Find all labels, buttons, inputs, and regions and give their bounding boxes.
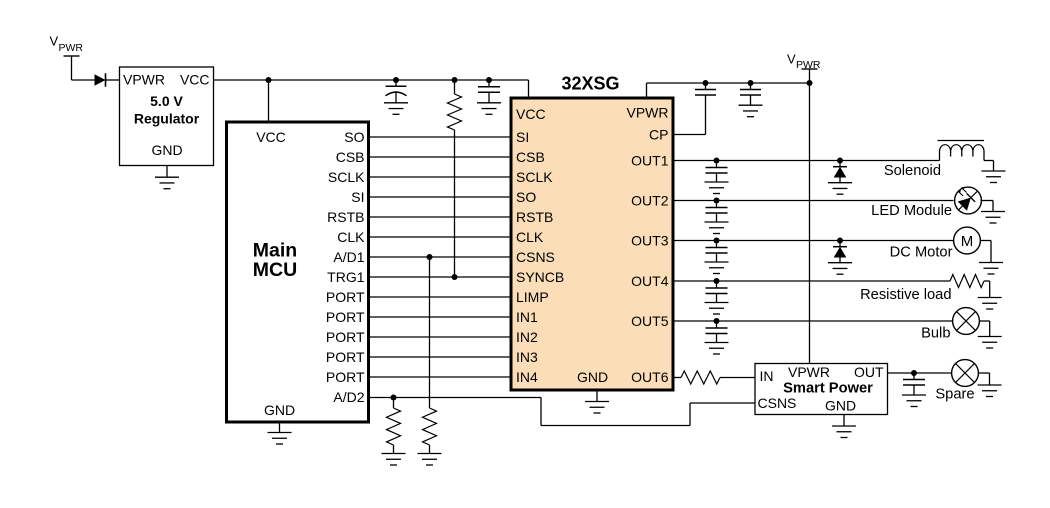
svg-text:VCC: VCC: [180, 72, 210, 88]
svg-text:SO: SO: [516, 189, 536, 205]
svg-text:M: M: [961, 233, 974, 250]
svg-text:Solenoid: Solenoid: [884, 163, 941, 179]
svg-text:CSNS: CSNS: [758, 395, 797, 411]
svg-text:DC Motor: DC Motor: [890, 245, 953, 261]
svg-text:SCLK: SCLK: [328, 169, 365, 185]
svg-text:Spare: Spare: [935, 387, 974, 403]
svg-text:OUT: OUT: [854, 364, 884, 380]
svg-text:A/D1: A/D1: [333, 249, 364, 265]
svg-text:GND: GND: [577, 369, 608, 385]
svg-text:CP: CP: [649, 127, 668, 143]
svg-text:PORT: PORT: [326, 309, 365, 325]
svg-text:PORT: PORT: [326, 369, 365, 385]
svg-text:IN1: IN1: [516, 309, 538, 325]
svg-text:IN: IN: [760, 368, 774, 384]
svg-text:IN3: IN3: [516, 349, 538, 365]
svg-text:SO: SO: [344, 129, 364, 145]
svg-text:Regulator: Regulator: [134, 111, 200, 127]
svg-text:PWR: PWR: [59, 42, 84, 54]
svg-text:RSTB: RSTB: [327, 209, 364, 225]
svg-text:V: V: [787, 52, 796, 67]
svg-text:A/D2: A/D2: [333, 389, 364, 405]
svg-text:PORT: PORT: [326, 289, 365, 305]
svg-text:GND: GND: [264, 402, 295, 418]
svg-text:LED Module: LED Module: [871, 203, 952, 219]
svg-text:OUT5: OUT5: [631, 313, 669, 329]
svg-text:CSB: CSB: [516, 149, 545, 165]
svg-text:CSB: CSB: [336, 149, 365, 165]
svg-text:CSNS: CSNS: [516, 249, 555, 265]
svg-text:OUT4: OUT4: [631, 273, 669, 289]
svg-text:LIMP: LIMP: [516, 289, 549, 305]
svg-text:PORT: PORT: [326, 349, 365, 365]
svg-text:Resistive load: Resistive load: [860, 287, 951, 303]
svg-text:SI: SI: [351, 189, 364, 205]
svg-text:OUT3: OUT3: [631, 233, 669, 249]
svg-text:PORT: PORT: [326, 329, 365, 345]
svg-text:IN4: IN4: [516, 369, 538, 385]
svg-text:VPWR: VPWR: [123, 72, 165, 88]
svg-text:5.0 V: 5.0 V: [150, 93, 183, 109]
svg-text:VCC: VCC: [516, 106, 546, 122]
svg-text:IN2: IN2: [516, 329, 538, 345]
svg-text:SCLK: SCLK: [516, 169, 553, 185]
svg-text:Smart Power: Smart Power: [783, 381, 873, 397]
svg-text:OUT6: OUT6: [631, 369, 669, 385]
svg-text:VPWR: VPWR: [627, 105, 669, 121]
svg-text:CLK: CLK: [516, 229, 544, 245]
svg-text:SYNCB: SYNCB: [516, 269, 564, 285]
svg-text:TRG1: TRG1: [327, 269, 365, 285]
svg-text:OUT2: OUT2: [631, 193, 669, 209]
svg-text:SI: SI: [516, 129, 529, 145]
svg-text:Bulb: Bulb: [921, 326, 950, 342]
svg-text:OUT1: OUT1: [631, 153, 669, 169]
svg-text:MCU: MCU: [253, 259, 297, 281]
svg-text:32XSG: 32XSG: [561, 74, 619, 94]
svg-text:CLK: CLK: [337, 229, 365, 245]
svg-text:VCC: VCC: [256, 129, 286, 145]
svg-text:V: V: [50, 34, 59, 49]
svg-text:GND: GND: [151, 142, 182, 158]
svg-text:RSTB: RSTB: [516, 209, 553, 225]
svg-text:VPWR: VPWR: [788, 364, 830, 380]
svg-text:GND: GND: [825, 398, 856, 414]
